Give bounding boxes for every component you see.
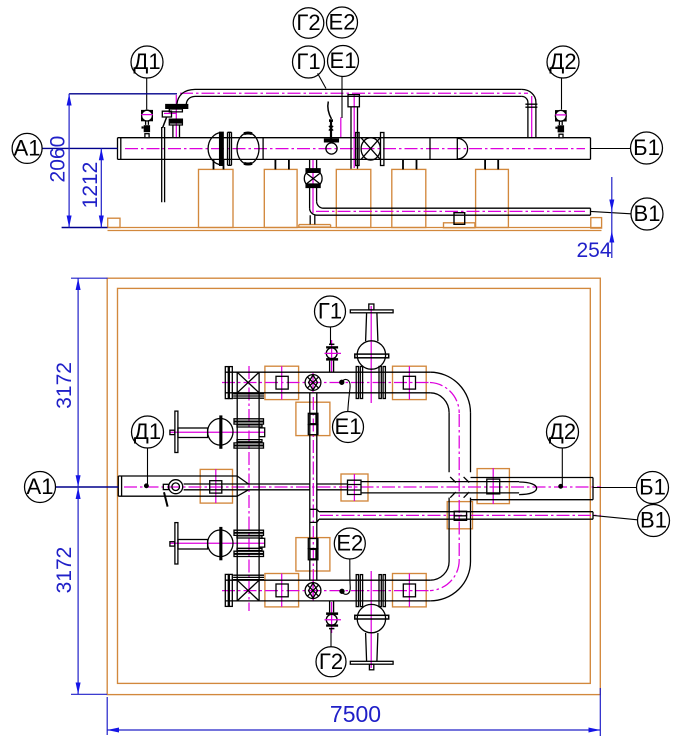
svg-text:Е2: Е2: [329, 10, 356, 35]
svg-text:А1: А1: [14, 135, 41, 160]
svg-text:Д2: Д2: [549, 49, 576, 74]
svg-text:1212: 1212: [79, 162, 102, 209]
svg-text:Д1: Д1: [133, 49, 160, 74]
svg-text:В1: В1: [634, 201, 661, 226]
svg-text:Г1: Г1: [318, 299, 342, 324]
svg-text:Г2: Г2: [296, 10, 320, 35]
svg-text:3172: 3172: [53, 362, 76, 409]
svg-text:Г1: Г1: [296, 49, 320, 74]
svg-text:Д1: Д1: [134, 419, 161, 444]
svg-text:254: 254: [576, 239, 611, 262]
svg-text:А1: А1: [27, 474, 54, 499]
svg-text:В1: В1: [640, 508, 667, 533]
svg-text:Г2: Г2: [319, 649, 343, 674]
svg-text:7500: 7500: [330, 701, 381, 727]
svg-text:Б1: Б1: [633, 135, 660, 160]
svg-text:2060: 2060: [47, 136, 70, 183]
svg-text:Е2: Е2: [336, 531, 363, 556]
svg-text:3172: 3172: [53, 547, 76, 594]
svg-text:Д2: Д2: [549, 419, 576, 444]
svg-text:Б1: Б1: [639, 475, 666, 500]
svg-text:Е1: Е1: [330, 48, 357, 73]
svg-text:Е1: Е1: [335, 414, 362, 439]
